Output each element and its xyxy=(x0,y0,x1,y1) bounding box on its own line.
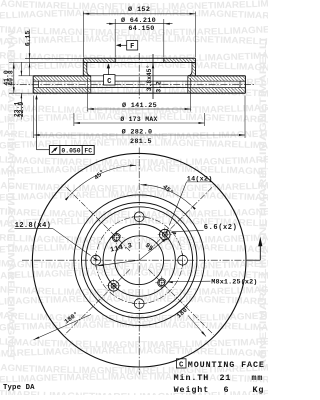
dim Ø173 extensions xyxy=(73,113,75,126)
section: mounting face line xyxy=(83,62,195,64)
section: hat wall hatched right xyxy=(192,63,196,76)
section outline: band left edge xyxy=(32,76,34,93)
dim 23.1/22.9 line segments xyxy=(20,62,22,76)
dim 114.3 leader xyxy=(98,260,140,266)
datum F leader xyxy=(121,44,127,46)
svg-text:22.9: 22.9 xyxy=(18,102,25,118)
svg-text:Weight: Weight xyxy=(174,385,210,395)
svg-text:Ø 64.210: Ø 64.210 xyxy=(121,16,156,25)
datum F box xyxy=(127,41,138,50)
band bottom extended left xyxy=(9,92,33,94)
180deg dim lower-right xyxy=(188,316,206,337)
section: hat plate hatched left xyxy=(83,58,115,62)
svg-text:mm: mm xyxy=(252,373,264,383)
dim Ø152 extension lines xyxy=(82,12,84,58)
bolt hole 180 xyxy=(91,255,101,265)
section: gap lines to right edge xyxy=(240,80,245,82)
svg-text:281.5: 281.5 xyxy=(130,138,152,146)
section: bore left edge xyxy=(114,58,116,62)
section: hat top surface xyxy=(83,57,195,59)
svg-text:Min.TH: Min.TH xyxy=(174,373,210,383)
svg-text:Ø 141.25: Ø 141.25 xyxy=(122,101,157,110)
dim Ø173 line xyxy=(74,122,205,124)
section: hat wall hatched left xyxy=(83,63,87,76)
section: hat inner wall right + fillet xyxy=(188,63,192,76)
svg-text:64.150: 64.150 xyxy=(128,25,154,33)
svg-text:MOUNTING FACE: MOUNTING FACE xyxy=(188,360,265,370)
svg-text:21: 21 xyxy=(220,373,232,383)
hole 6.6 at 45 xyxy=(162,232,167,237)
section: vent gap bottom line xyxy=(39,87,240,89)
svg-text:40.8: 40.8 xyxy=(8,70,15,86)
radial centreline 315 xyxy=(148,269,213,334)
section: vent gap right end xyxy=(239,81,241,87)
bolt hole 0 xyxy=(178,255,188,265)
section outline: band top surface xyxy=(33,75,91,77)
dim Ø141.25 extensions xyxy=(87,78,89,112)
dim Ø141.25 line xyxy=(88,108,191,110)
dim 95 leader xyxy=(139,238,167,261)
section: vent gap top line xyxy=(39,80,240,82)
radial centreline 45 xyxy=(148,186,213,251)
runout symbol xyxy=(52,148,57,153)
section: band top plate hatched right xyxy=(188,76,246,81)
hole 6.6 at 225 xyxy=(111,283,116,288)
chamfer leader line xyxy=(152,54,154,99)
section: hat outer wall right xyxy=(195,58,197,76)
bolt hole 90 xyxy=(134,212,144,222)
section: hat outer wall left xyxy=(82,58,84,76)
circle Ø152 xyxy=(82,203,197,318)
datum C leader arrow to mounting face xyxy=(107,67,109,75)
section: hat plate hatched right xyxy=(164,58,196,62)
centre bore Ø64 xyxy=(115,236,164,285)
dim Ø64.210/64.150 extension lines xyxy=(114,19,116,57)
section outline: band right edge xyxy=(244,76,246,93)
svg-text:F: F xyxy=(130,43,134,51)
dim Ø64 line xyxy=(107,23,173,25)
M8 hole 315 xyxy=(159,280,165,286)
section: vent gap left end xyxy=(38,81,40,87)
band top extended left xyxy=(19,75,34,77)
dim Ø152 line xyxy=(83,13,195,15)
horizontal centreline xyxy=(22,259,257,261)
svg-text:3.2: 3.2 xyxy=(156,81,163,93)
svg-text:FC: FC xyxy=(84,147,92,154)
svg-text:14(x2): 14(x2) xyxy=(187,176,213,184)
radial centreline 135 xyxy=(65,186,130,251)
section: bore right edge xyxy=(163,58,165,62)
section: gap top plate underside left xyxy=(33,80,38,82)
svg-text:AGNETIMARELLIMAGNETIMARELLIMAG: AGNETIMARELLIMAGNETIMARELLIMAGNETIMARELL… xyxy=(258,38,268,368)
svg-text:6: 6 xyxy=(224,385,230,395)
section: window inner edge left xyxy=(90,76,92,93)
section vertical centreline xyxy=(138,53,140,99)
dim 41.0/40.8 line xyxy=(13,63,15,94)
section: band bottom plate hatched right xyxy=(188,88,246,94)
section: window far lines xyxy=(91,80,188,82)
svg-text:0.050: 0.050 xyxy=(61,147,80,154)
svg-text:Kg: Kg xyxy=(253,385,265,395)
circle Ø173 xyxy=(74,195,205,326)
runout FC frame xyxy=(49,146,94,155)
vertical centreline xyxy=(138,148,140,375)
dim Ø282 line xyxy=(34,134,245,136)
svg-text:6.6(x2): 6.6(x2) xyxy=(204,224,238,232)
rotation direction arrow xyxy=(247,259,260,261)
datum C box (section) xyxy=(104,75,115,85)
section: band bottom plate hatched left xyxy=(33,88,91,94)
section horizontal centreline xyxy=(8,83,254,85)
svg-text:Ø 173 MAX: Ø 173 MAX xyxy=(120,115,157,123)
svg-text:6.15: 6.15 xyxy=(24,31,31,47)
section: window inner edge right xyxy=(187,76,189,93)
svg-text:3.8x45°: 3.8x45° xyxy=(145,65,153,91)
circle Ø141.25 xyxy=(86,207,193,314)
section outline: band bottom xyxy=(33,92,245,94)
dim 6.15 extension: mounting face extended left xyxy=(9,62,83,64)
svg-text:12.8(x4): 12.8(x4) xyxy=(15,222,51,230)
runout leader xyxy=(37,149,50,151)
svg-text:Type DA: Type DA xyxy=(3,384,35,392)
circle Ø95 xyxy=(103,224,175,296)
front view outer circle Ø282 xyxy=(32,153,246,367)
dim 6.15 line and arrows xyxy=(29,30,31,76)
bolt circle Ø114.3 xyxy=(96,217,183,304)
section: band top plate hatched left xyxy=(33,76,91,81)
legend C box xyxy=(176,359,186,368)
svg-text:C: C xyxy=(179,361,184,369)
45deg arc left xyxy=(70,165,136,195)
svg-text:Ø 282.0: Ø 282.0 xyxy=(122,127,153,136)
dim Ø282 extensions xyxy=(33,96,35,139)
section: hat inner wall left + fillet xyxy=(87,63,91,76)
radial centreline 225 xyxy=(65,269,130,334)
45deg arc right xyxy=(141,185,191,205)
svg-text:M8x1.25(x2): M8x1.25(x2) xyxy=(211,278,257,286)
bolt hole 270 xyxy=(134,299,144,309)
svg-text:Ø 152: Ø 152 xyxy=(128,5,150,14)
dim 6.15 extension: hat top extended left xyxy=(25,57,83,59)
180deg dim lower-left xyxy=(34,315,92,340)
svg-text:C: C xyxy=(107,78,112,86)
M8 hole 135 xyxy=(114,235,120,241)
